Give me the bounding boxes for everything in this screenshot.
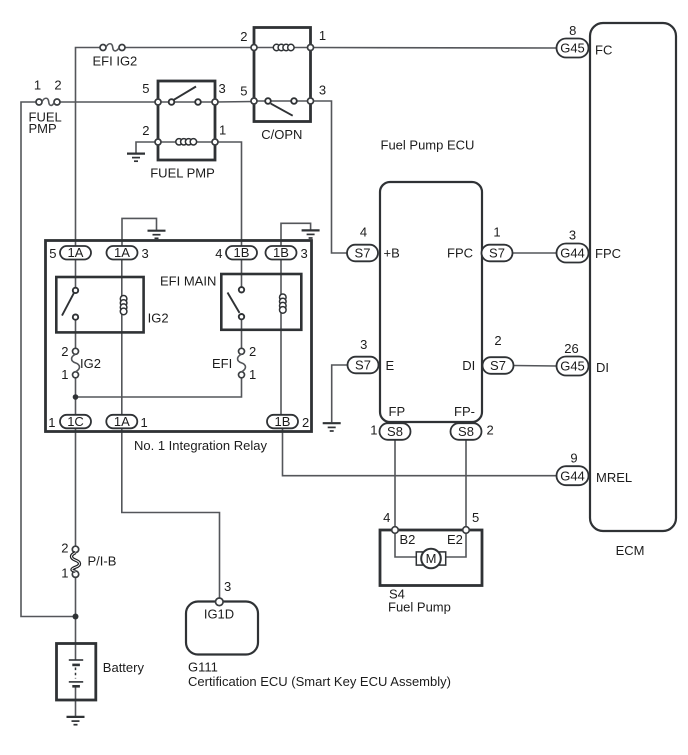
svg-text:No. 1 Integration Relay: No. 1 Integration Relay	[134, 438, 267, 453]
svg-text:3: 3	[569, 228, 576, 243]
svg-text:4: 4	[215, 246, 222, 261]
svg-text:3: 3	[224, 579, 231, 594]
svg-text:FP: FP	[389, 404, 406, 419]
svg-text:G44: G44	[560, 246, 585, 261]
svg-text:2: 2	[302, 415, 309, 430]
svg-text:26: 26	[564, 341, 578, 356]
svg-text:G44: G44	[560, 468, 585, 483]
svg-text:1A: 1A	[114, 245, 130, 260]
svg-text:IG1D: IG1D	[204, 607, 234, 622]
svg-text:5: 5	[49, 246, 56, 261]
svg-text:FPC: FPC	[595, 246, 621, 261]
svg-text:G45: G45	[560, 359, 585, 374]
svg-text:+B: +B	[384, 246, 400, 261]
svg-text:1: 1	[493, 225, 500, 240]
svg-text:1: 1	[319, 28, 326, 43]
svg-text:4: 4	[383, 510, 390, 525]
svg-text:5: 5	[472, 510, 479, 525]
svg-text:1B: 1B	[273, 245, 289, 260]
svg-text:9: 9	[570, 451, 577, 466]
svg-text:1: 1	[141, 415, 148, 430]
svg-text:2: 2	[61, 344, 68, 359]
svg-text:IG2: IG2	[80, 356, 101, 371]
svg-text:1C: 1C	[67, 414, 84, 429]
svg-text:EFI: EFI	[212, 356, 232, 371]
svg-text:EFI IG2: EFI IG2	[93, 53, 138, 68]
svg-text:2: 2	[240, 29, 247, 44]
svg-text:S8: S8	[458, 424, 474, 439]
svg-text:4: 4	[360, 225, 367, 240]
svg-text:FPC: FPC	[447, 246, 473, 261]
svg-text:1: 1	[370, 423, 377, 438]
svg-text:3: 3	[319, 83, 326, 98]
svg-text:3: 3	[301, 246, 308, 261]
svg-text:C/OPN: C/OPN	[261, 127, 302, 142]
svg-text:3: 3	[219, 81, 226, 96]
svg-text:1B: 1B	[234, 245, 250, 260]
svg-text:5: 5	[142, 81, 149, 96]
svg-text:1A: 1A	[114, 414, 130, 429]
svg-text:2: 2	[142, 123, 149, 138]
svg-text:1: 1	[34, 78, 41, 93]
svg-text:Fuel Pump: Fuel Pump	[388, 600, 451, 615]
svg-text:2: 2	[487, 423, 494, 438]
svg-text:G111: G111	[188, 659, 218, 674]
svg-text:DI: DI	[596, 360, 609, 375]
svg-text:FC: FC	[595, 43, 612, 58]
svg-text:1B: 1B	[275, 414, 291, 429]
svg-text:MREL: MREL	[596, 470, 632, 485]
svg-text:S7: S7	[490, 358, 506, 373]
svg-text:E2: E2	[447, 532, 463, 547]
svg-text:IG2: IG2	[148, 311, 169, 326]
svg-text:FUEL PMP: FUEL PMP	[150, 166, 215, 181]
svg-text:2: 2	[54, 78, 61, 93]
svg-text:B2: B2	[400, 532, 416, 547]
svg-text:Fuel Pump ECU: Fuel Pump ECU	[381, 138, 475, 153]
svg-text:Certification ECU (Smart Key E: Certification ECU (Smart Key ECU Assembl…	[188, 674, 451, 689]
svg-text:2: 2	[249, 344, 256, 359]
svg-text:1: 1	[61, 565, 68, 580]
svg-text:S8: S8	[387, 424, 403, 439]
svg-text:M: M	[426, 551, 437, 566]
svg-text:1: 1	[61, 367, 68, 382]
svg-text:G45: G45	[560, 41, 585, 56]
svg-text:2: 2	[61, 541, 68, 556]
svg-text:S7: S7	[355, 246, 371, 261]
svg-text:PMP: PMP	[29, 121, 57, 136]
svg-text:DI: DI	[462, 358, 475, 373]
svg-text:1A: 1A	[68, 245, 84, 260]
svg-text:ECM: ECM	[616, 543, 645, 558]
svg-text:FP-: FP-	[454, 404, 475, 419]
svg-text:2: 2	[494, 333, 501, 348]
svg-text:3: 3	[142, 246, 149, 261]
svg-text:5: 5	[240, 83, 247, 98]
svg-text:1: 1	[219, 122, 226, 137]
svg-text:S7: S7	[489, 246, 505, 261]
svg-text:S7: S7	[355, 358, 371, 373]
svg-text:8: 8	[569, 23, 576, 38]
svg-text:P/I-B: P/I-B	[88, 553, 117, 568]
svg-text:EFI MAIN: EFI MAIN	[160, 274, 216, 289]
svg-text:Battery: Battery	[103, 660, 145, 675]
svg-text:E: E	[386, 358, 395, 373]
svg-text:3: 3	[360, 337, 367, 352]
svg-text:1: 1	[249, 367, 256, 382]
svg-text:1: 1	[48, 415, 55, 430]
